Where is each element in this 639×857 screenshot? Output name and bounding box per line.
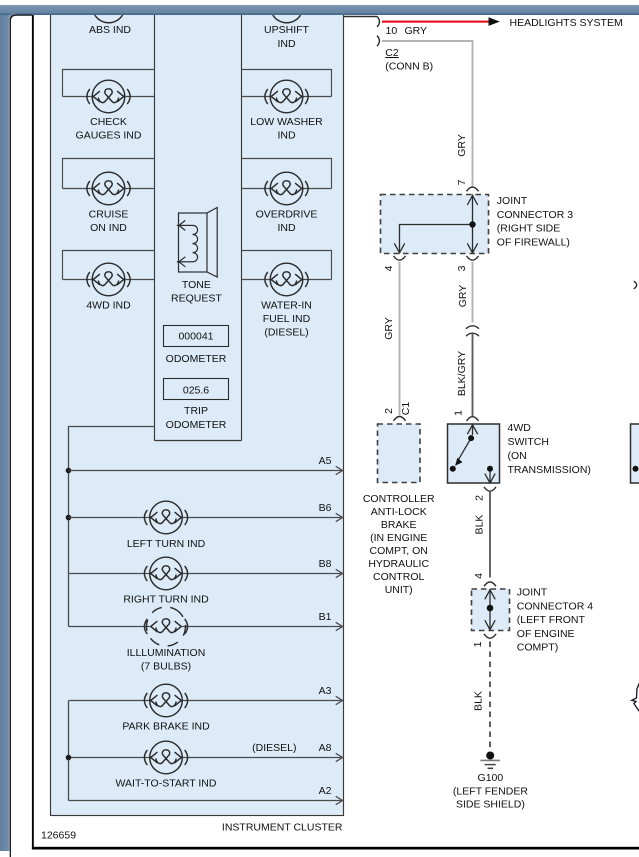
svg-text:JOINT: JOINT [497, 195, 528, 207]
svg-text:4WD: 4WD [508, 422, 532, 434]
cluster labels [76, 24, 324, 790]
svg-text:CRUISE: CRUISE [89, 209, 129, 221]
svg-text:HEADLIGHTS SYSTEM: HEADLIGHTS SYSTEM [510, 17, 623, 29]
node JC3 junction [469, 221, 475, 227]
svg-text:A5: A5 [319, 455, 332, 467]
label HEADLIGHTS SYSTEM [510, 17, 623, 29]
connector bracket pin 4 [394, 256, 406, 260]
node junction B6 [66, 515, 72, 521]
arrow JC3 to pin 4 [394, 243, 404, 253]
bulb WAIT-TO-START IND [144, 741, 187, 774]
wire loop right column [242, 251, 332, 280]
svg-text:G100: G100 [478, 772, 504, 784]
svg-text:OF FIREWALL): OF FIREWALL) [497, 236, 570, 248]
inline connector on right leg [466, 326, 479, 336]
svg-text:(ON: (ON [508, 450, 527, 462]
arrow JC3 to pin 3 [467, 243, 477, 253]
svg-text:126659: 126659 [41, 830, 76, 842]
svg-text:SIDE SHIELD): SIDE SHIELD) [456, 799, 525, 811]
svg-text:GRY: GRY [405, 25, 428, 37]
pin 1 label 4WD switch [453, 410, 465, 416]
svg-text:B1: B1 [319, 611, 332, 623]
svg-text:WATER-IN: WATER-IN [261, 300, 312, 312]
pin 4 label [383, 265, 395, 271]
svg-text:IND: IND [277, 222, 296, 234]
svg-text:COMPT): COMPT) [517, 642, 558, 654]
svg-text:2: 2 [473, 495, 485, 501]
label INSTRUMENT CLUSTER [222, 822, 343, 834]
cluster column divider left [154, 13, 156, 441]
4WD switch Q1 box [448, 424, 500, 483]
4WD switch internals [455, 425, 495, 483]
svg-text:BLK: BLK [472, 691, 484, 711]
svg-text:INSTRUMENT CLUSTER: INSTRUMENT CLUSTER [222, 822, 343, 834]
svg-text:IND: IND [277, 130, 296, 142]
svg-text:C1: C1 [400, 402, 412, 416]
svg-text:C2: C2 [385, 47, 399, 59]
cluster column divider right / centre display box [155, 13, 242, 441]
node 4WD switch contact left [450, 466, 456, 472]
label BLK vertical dashed wire [472, 691, 484, 711]
svg-text:A2: A2 [319, 785, 332, 797]
svg-text:LOW WASHER: LOW WASHER [250, 116, 323, 128]
node JC4 junction [487, 605, 494, 612]
label GRY vertical right leg [457, 285, 469, 308]
wire A5 [69, 455, 343, 475]
label JOINT CONNECTOR 3 [497, 195, 573, 248]
svg-text:ILLLUMINATION: ILLLUMINATION [127, 647, 206, 659]
svg-text:A3: A3 [319, 685, 332, 697]
wire loop right column [242, 159, 332, 189]
joint connector 3 internal bus [400, 195, 473, 254]
node 4WD switch common [468, 435, 474, 441]
bulb UPSHIFT IND (cut off at top) [273, 15, 301, 23]
svg-text:ODOMETER: ODOMETER [166, 419, 227, 431]
wire B1 [69, 611, 343, 631]
controller anti-lock brake box [378, 424, 421, 483]
bulb RIGHT TURN IND [144, 557, 187, 590]
svg-text:B8: B8 [319, 558, 332, 570]
wire loop left column [63, 70, 155, 97]
connector bracket JC4 pin 1 [484, 634, 496, 638]
label CONTROLLER ANTI-LOCK BRAKE [363, 493, 435, 596]
arrow JC4 to pin 1 [485, 620, 495, 630]
svg-text:TONE: TONE [182, 279, 211, 291]
svg-text:GRY: GRY [457, 285, 469, 308]
svg-text:LEFT TURN IND: LEFT TURN IND [127, 538, 206, 550]
svg-text:BRAKE: BRAKE [381, 519, 417, 531]
wire BLK/GRY to 4WD switch [472, 334, 474, 417]
svg-text:CONNECTOR 3: CONNECTOR 3 [497, 209, 573, 221]
svg-text:1: 1 [453, 410, 465, 416]
svg-text:4: 4 [473, 573, 485, 579]
label C1 [400, 402, 412, 416]
svg-text:REQUEST: REQUEST [171, 293, 222, 305]
label GRY vertical left leg [383, 317, 395, 340]
wire loop left column [63, 251, 155, 280]
bulb CHECK GAUGES IND [87, 80, 130, 113]
connector bracket pin 7 [467, 187, 479, 191]
wire BLK 4WD switch to JC4 [489, 491, 491, 578]
svg-text:TRIP: TRIP [184, 405, 208, 417]
svg-text:ON IND: ON IND [90, 222, 127, 234]
svg-text:2: 2 [383, 408, 395, 414]
svg-text:10: 10 [386, 25, 398, 37]
pin 1 label JC4 [472, 641, 484, 647]
connector half C2 cavity 10 [377, 16, 379, 27]
svg-text:OVERDRIVE: OVERDRIVE [256, 209, 318, 221]
node 4WD switch contact right [487, 466, 493, 472]
pin 2 label 4WD switch [473, 495, 485, 501]
svg-text:025.6: 025.6 [183, 385, 209, 397]
svg-text:ANTI-LOCK: ANTI-LOCK [371, 506, 427, 518]
bulb ABS IND (cut off at top) [95, 15, 123, 23]
svg-text:CONTROLLER: CONTROLLER [363, 493, 435, 505]
pin 4 label JC4 [473, 573, 485, 579]
svg-text:FUEL IND: FUEL IND [263, 313, 311, 325]
svg-text:(7 BULBS): (7 BULBS) [141, 661, 191, 673]
svg-text:(LEFT FRONT: (LEFT FRONT [517, 614, 586, 626]
wire from centre box to left bus [69, 427, 155, 627]
svg-text:A8: A8 [319, 742, 332, 754]
bulb WATER-IN FUEL IND [265, 263, 308, 296]
label 4WD SWITCH (ON TRANSMISSION) [508, 422, 591, 476]
label BLK vertical [473, 515, 485, 535]
bulb OVERDRIVE IND [265, 172, 308, 205]
svg-text:RIGHT TURN IND: RIGHT TURN IND [123, 594, 209, 606]
label 126659 [41, 830, 76, 842]
buzzer TONE REQUEST [177, 208, 217, 278]
svg-text:4: 4 [383, 265, 395, 271]
partial switch box at right edge [631, 424, 639, 483]
svg-text:JOINT: JOINT [517, 587, 548, 599]
wire GRY JC3 pin3 down [472, 262, 474, 323]
svg-text:(IN ENGINE: (IN ENGINE [370, 532, 427, 544]
ground G100 [480, 752, 500, 769]
label GRY vertical [456, 134, 468, 157]
svg-text:ABS IND: ABS IND [89, 24, 131, 36]
arrow into JC3 from pin 7 [467, 196, 477, 206]
wire B6 [69, 502, 343, 522]
node junction A5 [66, 468, 72, 474]
svg-text:BLK/GRY: BLK/GRY [456, 351, 468, 396]
svg-text:IND: IND [277, 38, 296, 50]
label C2 (CONN B) [385, 47, 433, 72]
pin 2 label [383, 408, 395, 414]
odometer display 000041 [164, 326, 229, 347]
label JOINT CONNECTOR 4 [517, 587, 593, 654]
node junction A8 [66, 755, 72, 761]
label G100 (LEFT FENDER SIDE SHIELD) [453, 772, 528, 811]
park brake bus wire [68, 701, 70, 801]
wire cluster pin 10 to connector [344, 16, 378, 18]
wire BLK dashed JC4 to G100 [489, 642, 491, 752]
partial connector bracket at right edge [634, 281, 637, 289]
svg-text:(RIGHT SIDE: (RIGHT SIDE [497, 223, 560, 235]
svg-text:(LEFT FENDER: (LEFT FENDER [453, 785, 528, 797]
svg-text:COMPT, ON: COMPT, ON [370, 545, 428, 557]
pin 3 label [456, 265, 468, 271]
bulb LEFT TURN IND [144, 501, 187, 534]
bulb CRUISE ON IND [87, 172, 130, 205]
svg-text:CONNECTOR 4: CONNECTOR 4 [517, 600, 593, 612]
svg-text:000041: 000041 [178, 331, 213, 343]
connector bracket pin 3 [467, 256, 479, 260]
wire A8 [69, 742, 343, 762]
svg-text:(CONN B): (CONN B) [385, 60, 433, 72]
label DIESEL on A8 wire [252, 742, 296, 754]
svg-text:(DIESEL): (DIESEL) [252, 742, 296, 754]
svg-text:3: 3 [456, 265, 468, 271]
svg-text:UPSHIFT: UPSHIFT [264, 24, 310, 36]
wire GRY JC3 pin4 to controller [399, 262, 401, 415]
svg-text:HYDRAULIC: HYDRAULIC [368, 558, 429, 570]
joint connector 4 box [472, 589, 510, 631]
wire loop left column [63, 159, 155, 189]
trip odometer display 025.6 [164, 379, 229, 400]
wire A3 [69, 685, 343, 705]
wire GRY from C2 to joint connector 3 [382, 41, 473, 187]
svg-text:GAUGES IND: GAUGES IND [76, 130, 142, 142]
red off-page wire to headlights [382, 17, 500, 26]
connector bracket controller pin 2 [394, 417, 406, 421]
connector bracket 4WD switch pin 1 [467, 417, 479, 421]
wire loop right column [242, 70, 332, 97]
svg-text:7: 7 [456, 179, 468, 185]
svg-text:PARK BRAKE IND: PARK BRAKE IND [122, 721, 210, 733]
arrow into JC4 from pin 4 [485, 590, 495, 600]
svg-text:GRY: GRY [456, 134, 468, 157]
svg-text:OF ENGINE: OF ENGINE [517, 628, 575, 640]
connector bracket 4WD switch pin 2 [484, 487, 496, 491]
svg-text:TRANSMISSION): TRANSMISSION) [508, 464, 591, 476]
svg-text:SWITCH: SWITCH [508, 436, 549, 448]
instrument cluster U1 outline [51, 12, 344, 816]
pin 7 [456, 179, 468, 185]
connector half C2 (CONN B) [377, 36, 379, 47]
label 10 GRY [386, 25, 428, 37]
bulb ILLUMINATION (7 BULBS) [140, 600, 193, 653]
bulb 4WD IND [87, 263, 130, 296]
svg-text:UNIT): UNIT) [385, 584, 413, 596]
svg-text:B6: B6 [319, 502, 332, 514]
connector bracket JC4 pin 4 [484, 582, 496, 586]
bulb PARK BRAKE IND [144, 684, 187, 717]
svg-text:GRY: GRY [383, 317, 395, 340]
joint connector 3 box [381, 195, 489, 254]
svg-text:4WD IND: 4WD IND [86, 300, 131, 312]
svg-text:CHECK: CHECK [90, 116, 127, 128]
wire A2 [69, 785, 343, 805]
wire B8 [69, 558, 343, 578]
svg-text:(DIESEL): (DIESEL) [264, 327, 308, 339]
label BLK/GRY vertical [456, 351, 468, 396]
svg-text:WAIT-TO-START IND: WAIT-TO-START IND [116, 778, 217, 790]
svg-text:CONTROL: CONTROL [373, 571, 424, 583]
mouse cursor [632, 678, 639, 712]
svg-text:ODOMETER: ODOMETER [166, 353, 227, 365]
svg-text:1: 1 [472, 641, 484, 647]
joint connector 4 internal bus [489, 589, 491, 631]
bulb LOW WASHER IND [265, 80, 308, 113]
svg-text:BLK: BLK [473, 515, 485, 535]
